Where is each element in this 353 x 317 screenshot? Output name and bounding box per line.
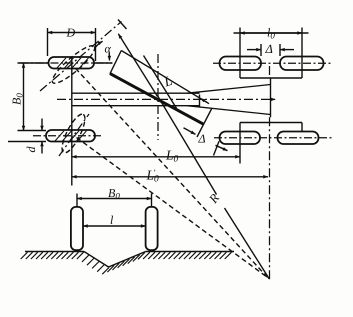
dimension Delta bottom ext tick 2 (214, 141, 220, 155)
rear top bracket left vertical (239, 28, 241, 79)
frame taper upper (187, 85, 271, 94)
rear bottom bracket top (240, 122, 302, 124)
solid line pivot to O with R label gap (158, 97, 269, 279)
centerline of wheel W2 (33, 135, 103, 137)
furrow V left side (84, 252, 109, 268)
ground line left (25, 251, 84, 253)
dimension D extension right (95, 28, 97, 61)
dimension Delta bottom arrow 1 (184, 128, 196, 135)
centerline of wheel W1 (21, 62, 113, 64)
front view dimension l line (83, 225, 146, 227)
pivot vertical dash-dot (157, 54, 159, 140)
dashed ellipse turned wheel W1 (48, 41, 98, 87)
dimension l0 arrows (240, 32, 302, 34)
wheel W1 front-left outer (top view) (49, 57, 95, 69)
rear top centerline (213, 62, 332, 64)
frame rear cap (rear axle solid) (270, 78, 272, 118)
front view dimension B0 line (77, 198, 152, 200)
dimension Delta bottom arrow 2 (216, 145, 228, 150)
dimension Delta top arrows (247, 49, 261, 51)
frame lower line (72, 105, 200, 107)
dashed ellipse turned wheel W2 (58, 111, 89, 155)
rear wheel RT1 (top right outer pair, left wheel) (220, 57, 262, 71)
frame taper lower (187, 106, 271, 115)
wheel W2 front-left inner (top view) (46, 130, 95, 142)
ground line right (146, 251, 234, 253)
svg-text:d: d (24, 146, 38, 153)
frame centerline dash-dot (57, 98, 276, 100)
end tick of plane line (118, 20, 127, 30)
svg-text:Δ: Δ (198, 132, 206, 146)
dimension d arrows (41, 119, 43, 131)
svg-text:D: D (66, 26, 76, 40)
dimension B0 extension top (18, 62, 49, 64)
rear bottom bracket right vertical (301, 123, 303, 132)
rear top bracket right vertical (301, 28, 303, 79)
dimension d extension bottom (8, 141, 46, 143)
dashed line W2 to O (77, 138, 270, 279)
dimension l0 line (234, 32, 309, 34)
frame end cap (199, 95, 201, 107)
rear wheel RB1 (bottom right pair, left wheel) (220, 132, 261, 145)
front view B0 ext ticks (77, 194, 152, 207)
svg-text:α: α (105, 42, 112, 56)
angle alpha arc arrow (96, 41, 103, 47)
front axle vertical line (71, 57, 73, 186)
turned axle beam left cap (110, 51, 121, 74)
furrow V right side (109, 252, 146, 268)
turned wheel W2 plane dash-dot line (59, 114, 89, 156)
dimension L0' line (72, 176, 268, 178)
front view left wheel (71, 207, 83, 250)
dimension D extension left (47, 28, 49, 56)
front view right wheel (146, 207, 158, 250)
dimension B0 extension bottom (18, 130, 47, 132)
dimension L0 line (72, 156, 240, 158)
ground hatching (21, 252, 232, 274)
rear top bracket bottom (240, 77, 302, 79)
frame upper line (72, 92, 200, 94)
dimension Delta top ticks (261, 44, 280, 56)
rear bottom bracket left vertical (239, 123, 241, 164)
rear wheel RT2 (top right pair, right wheel) (280, 57, 324, 71)
short construction segment near pivot (144, 56, 177, 109)
angle alpha lower arrow (108, 53, 110, 61)
turned wheel W1 plane dash-dot line (40, 22, 122, 92)
dimension Delta bottom ext tick 1 (197, 108, 212, 137)
L dimension arrow at frame corner (200, 98, 207, 102)
rear wheel RB2 (bottom right pair, right wheel) (278, 132, 319, 145)
steep line from plane to pivot (118, 34, 157, 97)
centerline solid right extension (94, 62, 113, 64)
L dimension line (121, 51, 209, 104)
svg-text:Δ: Δ (265, 42, 273, 56)
dashed line W1 to O (76, 68, 270, 279)
rear bottom centerline (214, 137, 332, 139)
thick turned axle axis (110, 74, 204, 125)
dimension D line (48, 32, 96, 34)
rear axle vertical dash-dot to O (269, 66, 271, 77)
dimension B0 line (23, 63, 25, 131)
rear axle vertical dash-dot lower (269, 117, 271, 279)
